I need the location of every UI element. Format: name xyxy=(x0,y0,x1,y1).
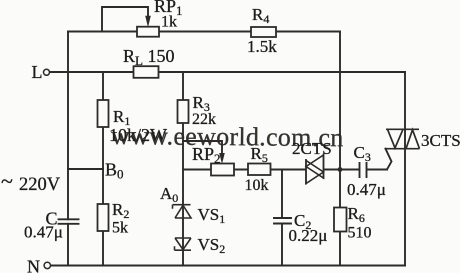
svg-text:C3: C3 xyxy=(354,143,371,164)
svg-text:0.22μ: 0.22μ xyxy=(289,226,328,245)
svg-text:510: 510 xyxy=(348,225,372,242)
svg-text:R4: R4 xyxy=(252,5,269,26)
svg-text:10k: 10k xyxy=(245,177,269,194)
svg-text:VS2: VS2 xyxy=(198,235,226,256)
svg-text:10k/2W: 10k/2W xyxy=(109,125,167,145)
svg-text:0.47μ: 0.47μ xyxy=(24,223,63,242)
svg-text:L: L xyxy=(32,62,43,82)
svg-text:1k: 1k xyxy=(161,14,177,31)
svg-text:5k: 5k xyxy=(112,220,128,237)
svg-text:2CTS: 2CTS xyxy=(292,139,332,158)
svg-text:B0: B0 xyxy=(105,160,124,182)
svg-text:N: N xyxy=(27,256,40,273)
svg-text:0.47μ: 0.47μ xyxy=(347,180,386,199)
svg-text:1.5k: 1.5k xyxy=(247,37,277,56)
svg-text:220V: 220V xyxy=(19,175,61,195)
svg-text:~: ~ xyxy=(1,169,13,194)
svg-text:VS1: VS1 xyxy=(198,205,226,226)
svg-text:A0: A0 xyxy=(160,184,178,205)
svg-text:3CTS: 3CTS xyxy=(421,131,460,150)
svg-text:RL 150: RL 150 xyxy=(123,46,174,68)
svg-text:22k: 22k xyxy=(192,111,216,128)
svg-text:R6: R6 xyxy=(348,204,365,225)
svg-text:R2: R2 xyxy=(112,200,129,221)
